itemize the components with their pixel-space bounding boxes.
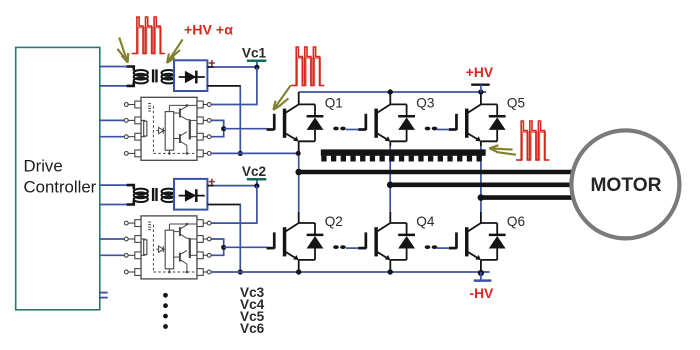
wire Q6 collector lead	[480, 212, 482, 223]
wire node Vc1 down to U1 pin 8	[211, 67, 257, 104]
svg-text:Vc1: Vc1	[242, 45, 267, 60]
svg-text:MOTOR: MOTOR	[590, 175, 661, 196]
svg-text:Q5: Q5	[507, 95, 525, 110]
wire D2 output - down to emitter-return line	[207, 205, 241, 273]
arrow annotation at T1 secondary	[167, 39, 183, 63]
diode rectifier box D2	[174, 179, 215, 210]
wire controller to U1 inputs	[100, 120, 125, 136]
wire Q5 collector lead	[480, 92, 482, 104]
diode freewheel across Q6	[481, 223, 506, 260]
wire U2 pins 6,7 joined to gate output	[211, 239, 224, 255]
node gate output junction dot channel 2	[221, 245, 226, 250]
terminal Vc2 (test point bar)	[247, 179, 266, 185]
wire Q1 collector lead	[298, 92, 300, 104]
wire continuation dots after Q2	[333, 245, 346, 249]
op-amp U1 (gate driver IC, 8-pin)	[124, 97, 211, 160]
wire D1 output + to node Vc1	[207, 66, 257, 68]
junction dot on emitter-return line	[238, 269, 243, 274]
diode freewheel across Q5	[481, 104, 506, 141]
svg-text:Q2: Q2	[325, 214, 343, 229]
wire controller to T1 primary	[100, 67, 127, 86]
wire Q3 emitter lead	[389, 141, 391, 146]
terminal Vc1 (test point bar)	[247, 61, 266, 67]
wire continuation dots after Q3	[425, 127, 438, 131]
node dot Q6 emitter on -HV rail	[478, 270, 484, 276]
motor M (3-phase)	[571, 130, 679, 238]
wire Q4 collector lead	[389, 212, 391, 223]
transformer T2 (gate-drive pulse transformer)	[127, 185, 177, 204]
svg-text:Q3: Q3	[416, 95, 434, 110]
op-amp U2 (gate driver IC, 8-pin)	[124, 216, 211, 279]
wire gate stub of Q6	[437, 247, 449, 249]
diode freewheel across Q1	[299, 104, 324, 141]
node dot phase A emitter-return junction	[296, 151, 301, 156]
diode freewheel across Q4	[390, 223, 415, 260]
svg-text:Q4: Q4	[416, 214, 435, 229]
svg-text:Drive: Drive	[24, 157, 63, 176]
wire phase A vertical (Q1/Q2 midpoint)	[298, 154, 300, 212]
wire U2 pin 5 emitter-return	[211, 271, 241, 273]
transistor Q2 (IGBT)	[267, 223, 315, 260]
wire Q5 emitter lead	[480, 141, 482, 146]
wire U1 pins 6,7 joined to gate output	[211, 120, 224, 136]
diode freewheel across Q3	[390, 104, 415, 141]
node dot Q4 emitter on -HV rail	[388, 269, 393, 274]
wire D1 output - down to emitter-return line	[207, 86, 241, 153]
wire +HV top rail	[299, 91, 487, 93]
node dot phase A output	[295, 169, 302, 176]
wire controller to U2 inputs	[100, 239, 125, 255]
wire Q4 emitter lead	[389, 260, 391, 272]
svg-text:+HV: +HV	[466, 65, 494, 80]
node dot Q5 collector on +HV rail	[478, 89, 483, 94]
wire Q2 collector lead	[298, 212, 300, 223]
heatsink (IGBT module baseplate)	[321, 149, 486, 161]
svg-text:Vc2: Vc2	[242, 164, 267, 179]
label Vc3 Vc4 Vc5 Vc6 (other channels)	[240, 285, 265, 336]
wire controller to T2 primary	[100, 185, 127, 204]
svg-text:+HV +α: +HV +α	[184, 22, 233, 38]
wire Q1 emitter lead	[298, 141, 300, 153]
waveform PWM pulse train (Q1 gate)	[291, 47, 324, 86]
wire gate stub of Q4	[346, 247, 358, 249]
wire gate output to Q2 gate	[224, 246, 267, 248]
wire node Vc2 down to U2 pin 8	[211, 186, 257, 223]
svg-text:Controller: Controller	[24, 178, 97, 197]
diode freewheel across Q2	[299, 223, 324, 260]
wire Q3 collector lead	[389, 92, 391, 104]
wire phase C vertical (Q5/Q6 midpoint)	[480, 146, 482, 212]
arrow annotation at T1 primary	[117, 38, 128, 63]
junction dot on emitter-return line	[238, 151, 243, 156]
node dot phase B output	[387, 182, 394, 189]
wire continuation marks (controller outputs to other channels)	[99, 293, 108, 298]
wire gate output to Q1 gate	[224, 128, 267, 130]
svg-text:Vc6: Vc6	[240, 321, 265, 336]
svg-text:Q6: Q6	[507, 214, 525, 229]
wire continuation dots after Q1	[333, 127, 346, 131]
transistor Q4 (IGBT)	[358, 223, 406, 260]
arrow annotation at phase output near Q5	[489, 145, 516, 155]
node dot Q3 collector on +HV rail	[388, 89, 393, 94]
diode rectifier box D1	[174, 60, 215, 91]
wire D2 output + to node Vc2	[207, 185, 257, 187]
wire phase C to motor	[481, 195, 576, 200]
transistor Q5 (IGBT)	[449, 104, 497, 141]
transistor Q6 (IGBT)	[449, 223, 497, 260]
wire phase B vertical (Q3/Q4 midpoint)	[389, 146, 391, 212]
waveform PWM pulse train (Q5 output)	[516, 121, 549, 160]
Drive Controller block	[16, 47, 100, 309]
wire -HV bottom rail	[240, 271, 489, 273]
node Vc1 junction dot	[254, 65, 259, 70]
terminal -HV	[474, 272, 492, 281]
transistor Q1 (IGBT)	[267, 104, 315, 141]
wire gate stub of Q3	[346, 129, 358, 131]
wire phase A to motor	[299, 170, 576, 175]
node Vc2 junction dot	[254, 183, 259, 188]
continuation ellipsis (channels 3-6 not shown)	[163, 293, 168, 329]
wire Q6 emitter lead	[480, 260, 482, 272]
transistor Q3 (IGBT)	[358, 104, 406, 141]
transformer T1 (gate-drive pulse transformer)	[127, 67, 177, 86]
wire phase B to motor	[390, 183, 573, 188]
wire gate stub of Q5	[437, 129, 449, 131]
arrow annotation at Q1 gate	[273, 85, 291, 110]
waveform PWM pulse train (transformer drive)	[132, 17, 165, 54]
node gate output junction dot channel 1	[221, 126, 226, 131]
svg-text:-HV: -HV	[470, 286, 495, 301]
wire Q2 emitter lead	[298, 260, 300, 272]
svg-text:Q1: Q1	[325, 95, 343, 110]
wire continuation dots after Q4	[425, 245, 438, 249]
node dot Q2 emitter on -HV rail	[296, 269, 301, 274]
wire U1 pin 5 emitter-return	[211, 152, 298, 154]
terminal +HV	[471, 85, 489, 92]
node dot phase C output	[478, 194, 485, 201]
